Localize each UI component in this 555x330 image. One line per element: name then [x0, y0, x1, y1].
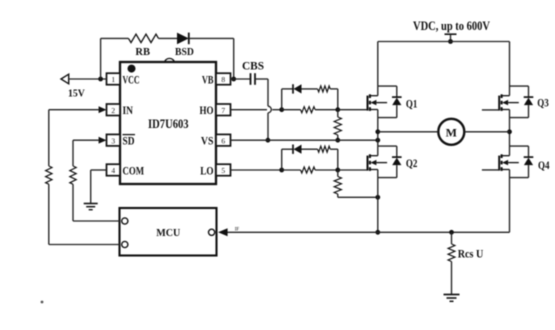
label VDC, up to 600V: [413, 19, 490, 33]
svg-text:HO: HO: [200, 103, 214, 117]
diode D1 (HO gate discharge): [293, 84, 318, 93]
svg-text:LO: LO: [200, 163, 213, 177]
wire VCC node up to RB loop: [100, 38, 102, 79]
wire motor to phase right: [464, 131, 509, 133]
svg-text:IF: IF: [235, 228, 240, 233]
pin 6 box: [216, 134, 231, 146]
svg-text:VDC, up to 600V: VDC, up to 600V: [413, 19, 490, 33]
ground (signal GND at COM): [84, 204, 98, 210]
pin 6 label VS: [201, 134, 214, 148]
MCU block: [120, 208, 217, 256]
MCU terminal top-left: [122, 218, 128, 224]
wire top loop right segment down to VB: [233, 38, 235, 79]
node VCC junction above pin 1: [98, 77, 103, 82]
pin 3 label SD: [123, 134, 136, 148]
node VDC on top rail: [448, 39, 453, 44]
node phase right (motor): [507, 129, 512, 134]
wire Q1 drain riser: [377, 42, 379, 87]
node HO branch left junction: [279, 107, 284, 112]
MCU terminal right (current feedback): [209, 229, 215, 235]
transistor Q3: [499, 86, 533, 118]
resistor R-HO-fast (upper branch): [318, 86, 331, 92]
svg-text:Q1: Q1: [406, 98, 418, 110]
label 15V: [68, 89, 85, 100]
wire Q4 source down to bottom rail: [509, 178, 511, 233]
resistor RB: [129, 34, 159, 42]
wire HO upper branch lead: [282, 88, 293, 90]
wire Q3 drain riser: [509, 42, 511, 87]
wire Q4 gate stub: [482, 169, 499, 171]
stray dot artifact: [41, 301, 44, 304]
wire HO upper branch left riser: [281, 89, 283, 110]
wire Q3 source to phase node right: [509, 118, 511, 147]
label RB: [135, 47, 150, 58]
svg-text:3: 3: [111, 136, 115, 145]
pin 2 box: [107, 104, 121, 116]
node VB junction: [231, 77, 236, 82]
wire HO network to Q1 gate: [338, 109, 368, 111]
pin 2 label IN: [123, 103, 134, 117]
resistor R-HO-series (main branch): [301, 107, 316, 113]
15V supply terminal arrow: [61, 74, 69, 84]
wire LO upper branch right riser: [330, 149, 338, 170]
resistor R-Q2-GS pulldown: [334, 170, 341, 197]
IC U1 pin-1 index dot: [128, 65, 136, 73]
svg-text:7: 7: [221, 106, 225, 115]
svg-text:5: 5: [221, 166, 225, 175]
wire LO main branch leads: [282, 169, 338, 171]
svg-text:CBS: CBS: [242, 59, 264, 73]
pin 4 label COM: [123, 163, 145, 177]
node R-Q1-GS to VS junction: [335, 138, 340, 143]
transistor Q4: [499, 146, 533, 178]
svg-text:BSD: BSD: [175, 47, 194, 58]
svg-text:4: 4: [111, 166, 115, 175]
label Q4: [538, 160, 550, 172]
wire LO network to Q2 gate: [338, 169, 368, 171]
svg-text:MCU: MCU: [156, 228, 180, 239]
wire Q3 gate stub: [482, 109, 499, 111]
node HO branch right junction: [335, 107, 340, 112]
svg-text:RB: RB: [135, 47, 150, 58]
wire HO pin 7 to network (hop over CBS wire): [231, 109, 282, 111]
pin 1 box: [107, 73, 121, 85]
label Q3: [537, 97, 549, 109]
wire Q2 source down to bottom rail: [377, 178, 379, 233]
resistor R-LO-series (main branch): [301, 167, 316, 173]
svg-text:ID7U603: ID7U603: [148, 117, 189, 131]
wire R1 up to IN arrow: [49, 110, 99, 166]
diode D2 (LO gate discharge): [293, 145, 318, 154]
svg-text:2: 2: [111, 106, 115, 115]
wire Q2 drain from phase: [0, 0, 1, 1]
pin 4 box: [107, 164, 121, 176]
ground (power GND under Rcs): [444, 295, 460, 302]
svg-text:Q2: Q2: [406, 158, 418, 170]
node Q2 source at bottom rail: [375, 230, 380, 235]
VDC terminal tee: [445, 34, 457, 41]
wire HO upper branch right riser: [330, 89, 338, 110]
IC U1 part number label ID7U603: [148, 117, 189, 131]
svg-text:Q3: Q3: [537, 97, 549, 109]
arrow into pin 2 IN: [99, 106, 107, 113]
resistor R1 (IN series): [46, 166, 52, 184]
MCU terminal bottom-left: [122, 241, 128, 247]
svg-text:Q4: Q4: [538, 160, 550, 172]
svg-text:15V: 15V: [68, 89, 85, 100]
label IF (feedback): [235, 228, 240, 233]
resistor R2 (SD series): [70, 166, 76, 184]
wire top loop left segment: [101, 37, 129, 39]
wire LO upper branch left riser: [281, 149, 283, 170]
wire phase left to motor: [378, 131, 439, 133]
capacitor CBS: [251, 73, 256, 85]
svg-text:COM: COM: [123, 163, 145, 177]
wire bottom rail (current sense line): [227, 231, 509, 233]
wire LO upper branch lead: [282, 148, 293, 150]
svg-text:1: 1: [111, 75, 115, 84]
wire R-Q2-GS to Q2 source: [338, 196, 378, 198]
svg-text:VB: VB: [202, 72, 214, 86]
wire MCU to R1 (IN line): [49, 184, 120, 244]
transistor Q1: [368, 86, 402, 118]
node Q2 source-pulldown junction: [375, 195, 380, 200]
MCU feedback arrowhead: [218, 228, 228, 236]
wire VB pin to CBS: [231, 78, 251, 80]
wire Q1 source to phase node: [377, 118, 379, 147]
pin 8 box: [216, 73, 231, 85]
svg-text:M: M: [446, 125, 457, 139]
wire MCU to R2 (SD line): [73, 184, 120, 221]
node LO branch left junction: [279, 168, 284, 173]
svg-text:6: 6: [221, 136, 225, 145]
motor M: [438, 119, 464, 145]
wire 15V to pin 1: [69, 78, 107, 80]
svg-text:SD: SD: [123, 134, 135, 148]
wire COM pin 4 to ground: [91, 170, 107, 203]
pin 7 label HO: [200, 103, 214, 117]
wire HO main branch leads: [282, 109, 338, 111]
svg-text:IN: IN: [123, 103, 134, 117]
pin 8 label VB: [202, 72, 214, 86]
label CBS: [242, 59, 264, 73]
wire CBS down to VS (crosses HO with hop): [268, 79, 271, 140]
wire LO pin 5 to network: [231, 169, 282, 171]
node VS at half-bridge: [375, 138, 380, 143]
wire RB to BSD: [159, 37, 178, 39]
svg-text:8: 8: [221, 75, 225, 84]
resistor Rcs U: [448, 232, 455, 294]
pin 1 label VCC: [123, 72, 140, 86]
node Rcs junction on bottom rail: [449, 230, 454, 235]
label BSD: [175, 47, 194, 58]
pin 3 box: [107, 134, 121, 146]
wire CBS to corner: [255, 78, 268, 80]
label Rcs U: [458, 247, 484, 261]
label Q1: [406, 98, 418, 110]
wire VS pin 6 to phase node: [231, 139, 378, 141]
IC U1 ID7U603 package body: [120, 58, 216, 184]
node phase left (motor): [375, 129, 380, 134]
svg-text:VCC: VCC: [123, 72, 140, 86]
pin 5 box: [216, 164, 231, 176]
node LO branch right junction: [335, 168, 340, 173]
wire BSD to VB corner: [189, 37, 234, 39]
pin 5 label LO: [200, 163, 213, 177]
pin 7 box: [216, 104, 231, 116]
diode BSD: [177, 33, 189, 45]
wire R2 up to SD arrow: [73, 140, 99, 166]
resistor R-LO-fast (upper branch): [318, 146, 331, 152]
svg-text:VS: VS: [201, 134, 214, 148]
arrow into pin 3 SD: [99, 137, 107, 144]
svg-text:Rcs U: Rcs U: [458, 247, 484, 261]
label Q2: [406, 158, 418, 170]
resistor R-Q1-GS pulldown: [334, 110, 341, 141]
wire top DC rail: [378, 41, 510, 43]
node CBS-VS junction: [266, 138, 271, 143]
transistor Q2: [368, 146, 402, 178]
